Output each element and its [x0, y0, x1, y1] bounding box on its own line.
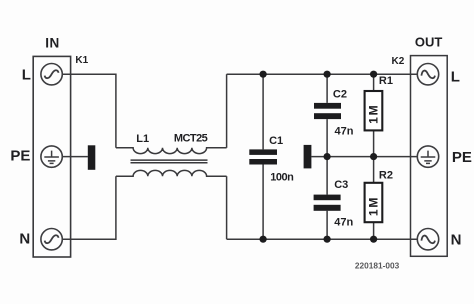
capacitor C1 [249, 149, 277, 164]
wire N line bottom [227, 238, 418, 240]
svg-text:L: L [451, 69, 460, 86]
svg-text:MCT25: MCT25 [174, 132, 208, 144]
svg-text:N: N [19, 231, 30, 248]
wire R1 branch [373, 74, 375, 156]
terminal circle PE out [417, 146, 438, 167]
svg-text:220181-003: 220181-003 [355, 261, 400, 271]
terminal circle L in [41, 63, 62, 84]
wire N input to choke [62, 176, 116, 239]
svg-text:1M: 1M [366, 196, 380, 216]
resistor R2 [365, 183, 383, 222]
wire PE input to chassis [62, 156, 88, 158]
svg-text:100n: 100n [270, 171, 294, 183]
chassis bar right [304, 145, 312, 169]
wire R2 branch [373, 157, 375, 240]
svg-text:N: N [451, 231, 462, 248]
terminal circle PE in [41, 146, 62, 167]
inductor L1 top winding [116, 148, 227, 154]
svg-text:C2: C2 [333, 88, 347, 100]
svg-text:PE: PE [10, 148, 30, 165]
svg-text:C1: C1 [269, 135, 283, 147]
svg-text:K1: K1 [75, 55, 88, 66]
terminal circle N in [41, 229, 62, 250]
wire L line top [227, 73, 418, 75]
svg-text:R2: R2 [379, 170, 393, 182]
svg-text:L: L [22, 66, 31, 83]
svg-text:47n: 47n [335, 125, 354, 137]
svg-text:1M: 1M [366, 104, 380, 124]
wire C2 branch [326, 74, 328, 156]
resistor R1 [365, 91, 383, 130]
svg-text:R1: R1 [379, 75, 393, 87]
terminal circle L out [417, 63, 438, 84]
svg-text:L1: L1 [136, 133, 149, 145]
svg-text:IN: IN [45, 36, 60, 51]
wire C1 branch [262, 74, 264, 239]
capacitor C2 [314, 103, 341, 119]
inductor L1 bottom winding [116, 170, 227, 176]
terminal block K2 (OUT) [411, 56, 448, 257]
wire choke to N line [226, 176, 228, 239]
wire C3 branch [326, 157, 328, 240]
inductor L1 core [131, 160, 208, 163]
terminal block K1 (IN) [33, 56, 70, 257]
wire choke to L line [226, 74, 228, 148]
junction dots [260, 71, 378, 243]
svg-text:47n: 47n [334, 216, 353, 228]
capacitor C3 [314, 195, 341, 211]
svg-text:PE: PE [452, 149, 472, 166]
terminal circle N out [417, 229, 438, 250]
chassis bar left [88, 145, 96, 170]
wire PE middle to output [311, 156, 417, 158]
svg-text:C3: C3 [334, 179, 348, 191]
svg-text:OUT: OUT [415, 35, 443, 50]
svg-text:K2: K2 [392, 56, 405, 67]
wire L input to choke [62, 74, 116, 148]
